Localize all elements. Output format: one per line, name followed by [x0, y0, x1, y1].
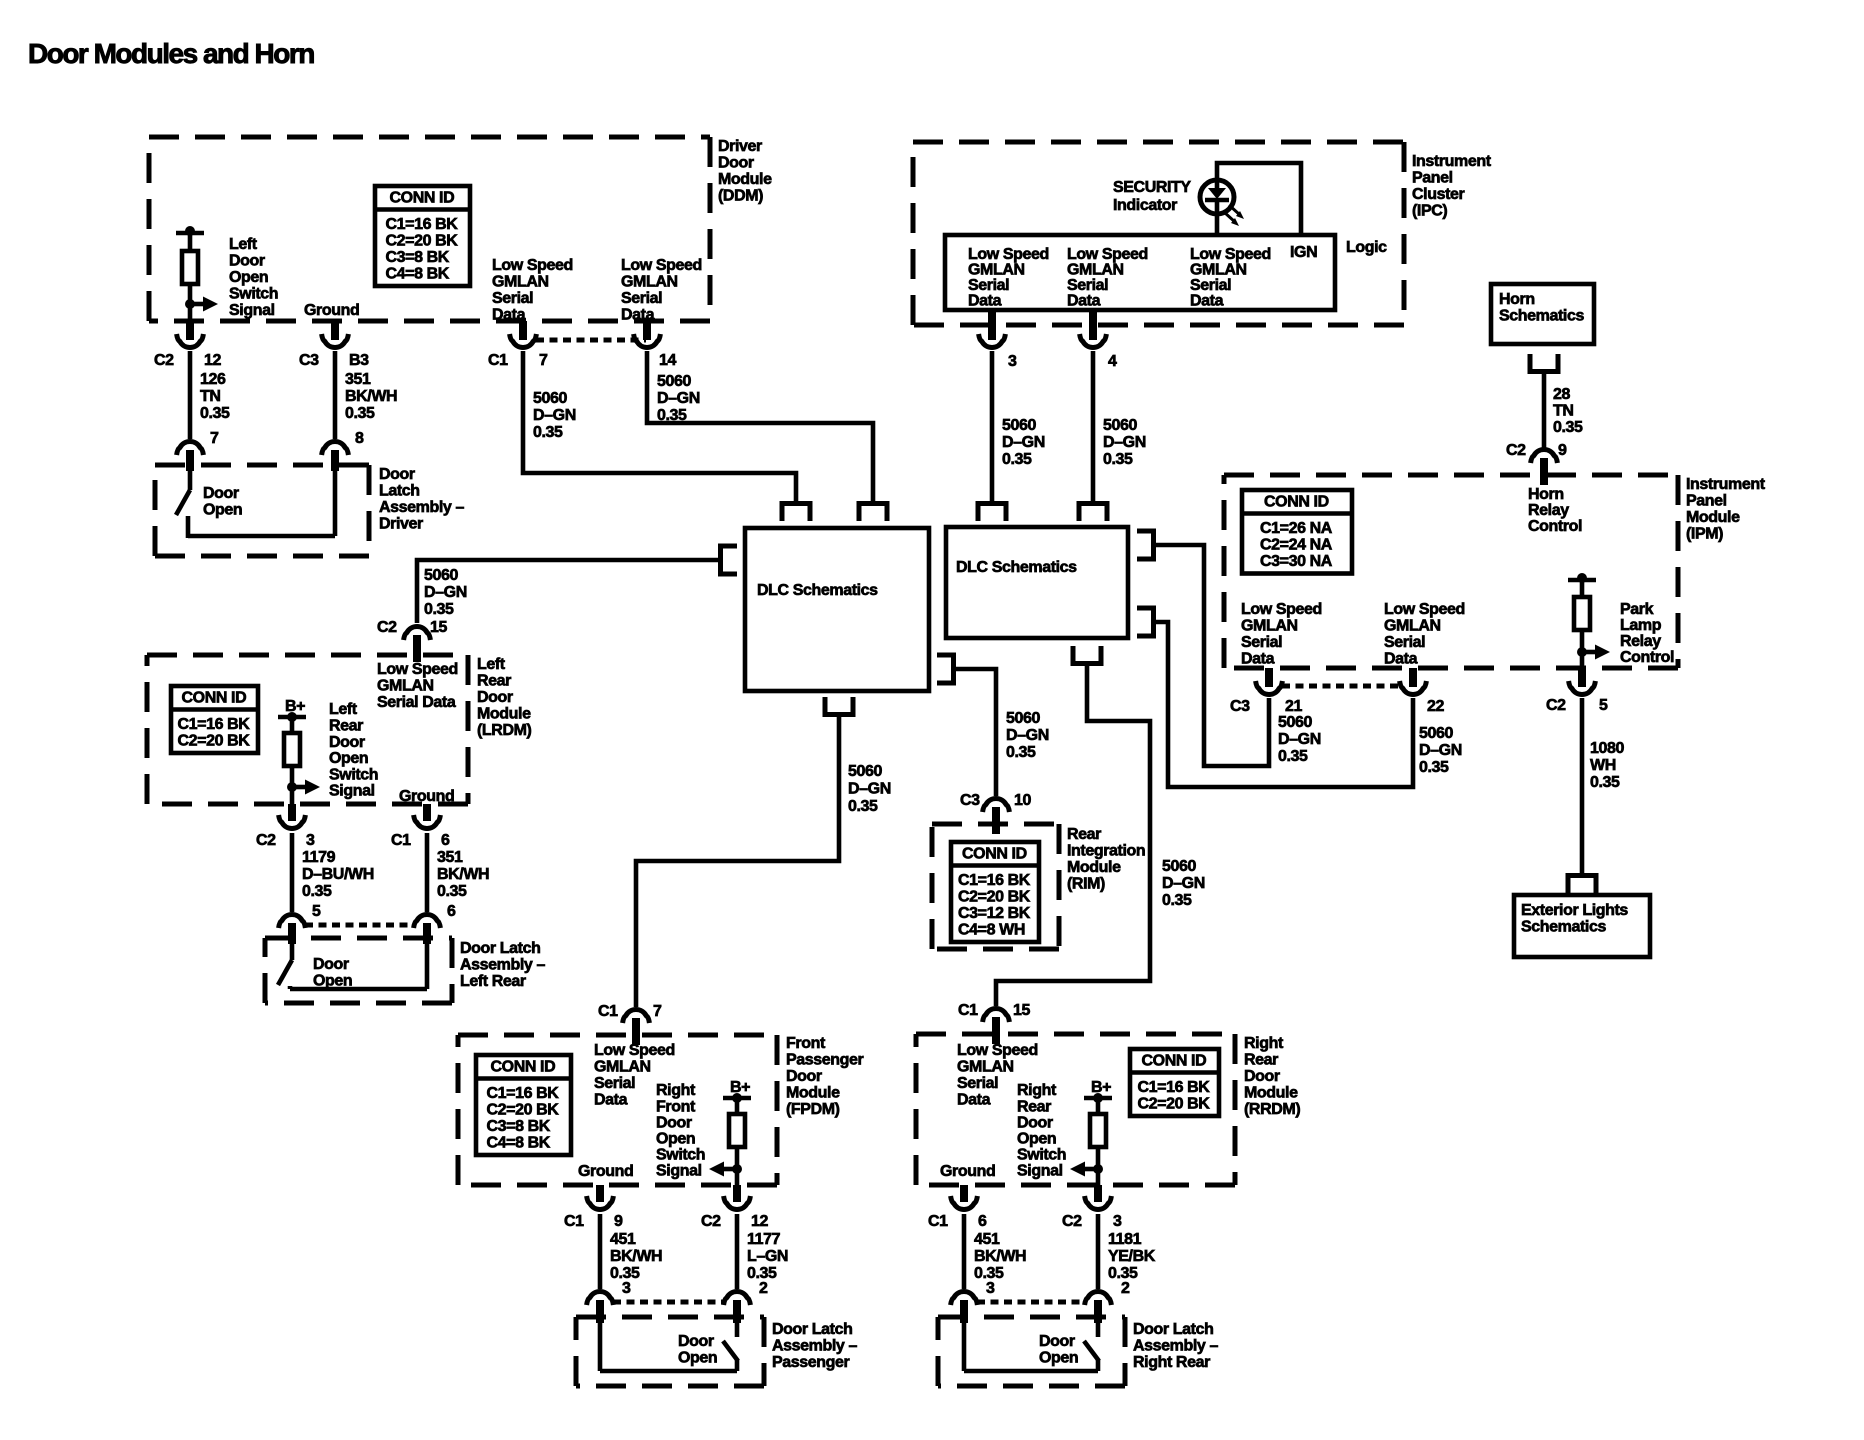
wire 351 BK/WH 0.35 [333, 351, 338, 439]
svg-text:Door: Door [786, 1068, 822, 1085]
label Low Speed GMLAN Serial Data (IPM col2) [1384, 601, 1465, 667]
label 5060 D-GN 0.35 (IPM 21) [1278, 714, 1321, 765]
connector C3 pin 21 (IPM) [1256, 668, 1283, 694]
svg-text:Door: Door [477, 689, 513, 706]
svg-text:C2: C2 [154, 352, 174, 369]
svg-text:0.35: 0.35 [424, 601, 454, 618]
svg-text:Open: Open [229, 269, 268, 286]
labels C1 6 [391, 832, 450, 849]
label Door Open (driver latch) [203, 485, 242, 519]
label Low Speed GMLAN Serial Data (DDM col2) [621, 257, 702, 323]
svg-text:GMLAN: GMLAN [377, 678, 434, 695]
svg-text:451: 451 [974, 1231, 1000, 1248]
svg-text:2: 2 [1121, 1280, 1130, 1297]
connector pin 3 (door latch passenger) [587, 1292, 614, 1323]
svg-text:C2=20 BK: C2=20 BK [386, 233, 459, 250]
svg-text:BK/WH: BK/WH [974, 1248, 1026, 1265]
svg-text:Relay: Relay [1528, 502, 1569, 519]
svg-text:Open: Open [678, 1350, 717, 1367]
svg-text:CONN ID: CONN ID [491, 1059, 556, 1076]
svg-text:C2: C2 [256, 832, 276, 849]
label Low Speed GMLAN Serial Data (DDM col1) [492, 257, 573, 323]
svg-text:GMLAN: GMLAN [621, 274, 678, 291]
svg-text:Rear: Rear [329, 718, 363, 735]
svg-text:Horn: Horn [1499, 291, 1535, 308]
label 5060 D-GN 0.35 (IPC-4) [1103, 417, 1146, 468]
label Rear Integration Module (RIM) [1067, 826, 1145, 893]
label Right Rear Door Open Switch Signal [1017, 1082, 1066, 1180]
svg-text:Data: Data [1241, 650, 1275, 667]
svg-text:1177: 1177 [747, 1231, 781, 1248]
labels C3 10 [960, 792, 1031, 809]
svg-text:C4=8 BK: C4=8 BK [386, 266, 450, 283]
svg-text:5060: 5060 [1006, 710, 1040, 727]
Exterior Lights top tab [1568, 876, 1596, 894]
svg-text:9: 9 [1558, 442, 1567, 459]
svg-text:DLC Schematics: DLC Schematics [757, 582, 878, 599]
label Driver Door Module (DDM) [718, 138, 772, 205]
svg-text:WH: WH [1590, 757, 1616, 774]
svg-text:D–BU/WH: D–BU/WH [302, 866, 374, 883]
svg-text:Park: Park [1620, 601, 1654, 618]
B+ feed and right rear door open switch signal symbol [1070, 1079, 1112, 1185]
svg-text:Rear: Rear [1067, 826, 1101, 843]
svg-text:Door: Door [329, 734, 365, 751]
label Right Front Door Open Switch Signal [656, 1082, 705, 1180]
svg-text:Low Speed: Low Speed [621, 257, 702, 274]
svg-text:Data: Data [1067, 292, 1101, 309]
svg-text:Module: Module [477, 706, 531, 723]
svg-text:Ground: Ground [399, 788, 454, 805]
svg-text:5060: 5060 [657, 373, 691, 390]
connector pin 7 (door latch driver) [177, 442, 204, 471]
connector pin 2 (door latch passenger) [724, 1292, 751, 1323]
svg-text:Open: Open [203, 502, 242, 519]
wire 1179 D-BU/WH 0.35 [290, 833, 295, 912]
label Low Speed GMLAN Serial Data (LRDM) [377, 661, 458, 711]
svg-text:Open: Open [1017, 1131, 1056, 1148]
svg-text:Serial: Serial [957, 1075, 998, 1092]
svg-text:2: 2 [759, 1280, 768, 1297]
svg-text:Data: Data [594, 1091, 628, 1108]
label 126 TN 0.35 pin 7 [200, 371, 230, 447]
svg-text:28: 28 [1553, 386, 1570, 403]
svg-text:Right: Right [656, 1082, 696, 1099]
svg-text:Module: Module [1686, 509, 1740, 526]
svg-text:351: 351 [345, 371, 371, 388]
svg-text:Door Latch: Door Latch [460, 940, 540, 957]
title [28, 38, 314, 69]
svg-text:351: 351 [437, 849, 463, 866]
svg-text:Switch: Switch [656, 1147, 705, 1164]
svg-text:Door: Door [656, 1114, 692, 1131]
svg-text:5060: 5060 [424, 567, 458, 584]
svg-text:9: 9 [614, 1213, 623, 1230]
label Ground (DDM) [304, 302, 359, 319]
svg-text:Passenger: Passenger [772, 1354, 850, 1371]
label Door Latch Assembly Driver [379, 466, 464, 533]
svg-text:(RIM): (RIM) [1067, 876, 1105, 893]
label 351 BK/WH 0.35 pin 8 [345, 371, 397, 447]
label Door Open (right rear latch) [1039, 1333, 1078, 1367]
svg-text:Module: Module [718, 171, 772, 188]
svg-text:Door: Door [379, 466, 415, 483]
wire 5060 D-GN 0.35 DLC2-upper-right to IPM C3-21 [1156, 545, 1269, 766]
svg-text:12: 12 [751, 1213, 768, 1230]
svg-text:0.35: 0.35 [848, 798, 878, 815]
svg-text:Left: Left [229, 236, 258, 253]
svg-text:D–GN: D–GN [1002, 434, 1045, 451]
DLC2 bottom tab [1073, 646, 1101, 664]
svg-text:Door: Door [1017, 1114, 1053, 1131]
svg-text:GMLAN: GMLAN [1241, 618, 1298, 635]
label Low Speed GMLAN Serial Data (IPC col3) [1190, 246, 1271, 309]
Horn Schematics bottom tab [1530, 354, 1558, 372]
svg-text:Integration: Integration [1067, 843, 1145, 860]
svg-text:Latch: Latch [379, 483, 420, 500]
svg-text:0.35: 0.35 [1419, 759, 1449, 776]
svg-text:Schematics: Schematics [1499, 308, 1584, 325]
label Park Lamp Relay Control [1620, 601, 1674, 666]
module LRDM dashed box [147, 655, 468, 804]
svg-text:D–GN: D–GN [657, 390, 700, 407]
svg-text:Door Modules and Horn: Door Modules and Horn [28, 38, 314, 69]
svg-text:Instrument: Instrument [1412, 153, 1492, 170]
svg-text:3: 3 [306, 832, 315, 849]
connector pin 8 (door latch driver) [322, 442, 349, 471]
labels C1 7 [488, 352, 548, 369]
svg-text:Panel: Panel [1412, 170, 1453, 187]
svg-text:C2=20 BK: C2=20 BK [487, 1102, 560, 1119]
svg-text:Driver: Driver [379, 516, 423, 533]
labels C2 3 [1062, 1213, 1122, 1230]
svg-text:D–GN: D–GN [533, 407, 576, 424]
svg-text:C3: C3 [1230, 698, 1250, 715]
svg-text:Left: Left [329, 701, 358, 718]
svg-text:Low Speed: Low Speed [377, 661, 458, 678]
svg-text:C2=20 BK: C2=20 BK [958, 889, 1031, 906]
svg-text:D–GN: D–GN [1006, 727, 1049, 744]
label SECURITY Indicator [1113, 179, 1191, 214]
svg-text:Assembly –: Assembly – [379, 499, 464, 516]
svg-text:Ground: Ground [304, 302, 359, 319]
svg-text:Low Speed: Low Speed [594, 1042, 675, 1059]
svg-text:0.35: 0.35 [1278, 748, 1308, 765]
svg-text:(IPC): (IPC) [1412, 203, 1447, 220]
connector C1 pin 6 (RRDM) [951, 1185, 978, 1209]
svg-text:D–GN: D–GN [1419, 742, 1462, 759]
svg-text:6: 6 [978, 1213, 987, 1230]
svg-text:Rear: Rear [1244, 1052, 1278, 1069]
connector pin 4 (IPC) [1080, 310, 1107, 347]
svg-text:D–GN: D–GN [848, 781, 891, 798]
labels C1 9 [564, 1213, 623, 1230]
svg-text:Right: Right [1017, 1082, 1057, 1099]
CONN ID table [1130, 1049, 1219, 1116]
svg-text:Logic: Logic [1346, 239, 1387, 256]
svg-text:C1: C1 [564, 1213, 584, 1230]
svg-text:3: 3 [1008, 353, 1017, 370]
svg-text:7: 7 [539, 352, 548, 369]
svg-text:Rear: Rear [1017, 1098, 1051, 1115]
svg-text:Control: Control [1528, 518, 1582, 535]
svg-text:Exterior Lights: Exterior Lights [1521, 902, 1628, 919]
svg-text:C2=24 NA: C2=24 NA [1260, 537, 1333, 554]
svg-text:C3=8 BK: C3=8 BK [386, 249, 450, 266]
Exterior Lights Schematics box [1514, 895, 1650, 957]
svg-text:BK/WH: BK/WH [610, 1248, 662, 1265]
svg-text:(LRDM): (LRDM) [477, 722, 532, 739]
door open switch (right rear) [964, 1323, 1099, 1371]
svg-text:C3=30 NA: C3=30 NA [1260, 553, 1333, 570]
wire 1181 YE/BK 0.35 [1096, 1214, 1101, 1289]
svg-text:CONN ID: CONN ID [182, 690, 247, 707]
svg-text:451: 451 [610, 1231, 636, 1248]
label Door Open (left rear latch) [313, 956, 352, 990]
wire 5060 D-GN 0.35 DLC2-bottom to RRDM C1-15 [996, 666, 1150, 1006]
svg-text:5: 5 [312, 903, 321, 920]
svg-text:5060: 5060 [1278, 714, 1312, 731]
left door open switch signal source symbol [176, 226, 218, 321]
wire 5060 D-GN 0.35 from DDM C1-7 to DLC1 [523, 351, 796, 503]
connector pin 6 (door latch left rear) [414, 915, 441, 944]
svg-text:Serial: Serial [594, 1075, 635, 1092]
svg-text:Front: Front [656, 1098, 696, 1115]
svg-text:0.35: 0.35 [657, 407, 687, 424]
Horn Schematics box [1491, 284, 1594, 344]
svg-text:D–GN: D–GN [1278, 731, 1321, 748]
svg-text:14: 14 [659, 352, 676, 369]
svg-text:6: 6 [447, 903, 456, 920]
svg-text:Serial: Serial [621, 290, 662, 307]
LED security indicator [1200, 180, 1234, 214]
label 351 BK/WH 0.35 pin 6 [437, 849, 489, 920]
svg-text:BK/WH: BK/WH [345, 388, 397, 405]
wire 451 BK/WH 0.35 (FPDM) [598, 1214, 603, 1289]
label Door Latch Assembly Left Rear [460, 940, 545, 990]
connector pin 14 (DDM) [634, 321, 661, 347]
label Ground (FPDM) [578, 1163, 633, 1180]
svg-text:Left Rear: Left Rear [460, 973, 526, 990]
svg-text:D–GN: D–GN [1162, 875, 1205, 892]
svg-text:C2: C2 [1062, 1213, 1082, 1230]
svg-text:Signal: Signal [329, 783, 375, 800]
svg-text:Door: Door [313, 956, 349, 973]
label Left Rear Door Module (LRDM) [477, 656, 532, 739]
connector C1 pin 7 (FPDM) [623, 1010, 650, 1045]
label 451 BK/WH 0.35 pin 3 (RRDM) [974, 1231, 1026, 1297]
svg-text:0.35: 0.35 [302, 883, 332, 900]
CONN ID table [476, 1055, 571, 1155]
DLC1 top tab 1 [782, 504, 810, 522]
svg-text:Open: Open [656, 1131, 695, 1148]
svg-text:TN: TN [1553, 403, 1574, 420]
connector bridge dotted line (right rear latch) [977, 1300, 1085, 1305]
svg-text:0.35: 0.35 [200, 405, 230, 422]
labels C2 12 [701, 1213, 768, 1230]
connector C2 pin 5 (IPM) [1569, 668, 1596, 694]
svg-text:L–GN: L–GN [747, 1248, 788, 1265]
svg-text:Low Speed: Low Speed [957, 1042, 1038, 1059]
svg-text:Door: Door [678, 1333, 714, 1350]
CONN ID table [1242, 490, 1352, 574]
svg-text:15: 15 [1013, 1002, 1030, 1019]
svg-text:Signal: Signal [656, 1163, 702, 1180]
connector C1 pin 15 (RRDM) [983, 1009, 1010, 1044]
svg-text:Door Latch: Door Latch [1133, 1321, 1213, 1338]
label Front Passenger Door Module (FPDM) [786, 1035, 864, 1118]
wire 5060 D-GN 0.35 DLC1-left to LRDM C2-15 [417, 560, 718, 623]
connector bridge dotted line (passenger latch) [613, 1300, 724, 1305]
module FPDM dashed box [458, 1035, 777, 1185]
label 5060 D-GN 0.35 (DDM C1-7) [533, 390, 576, 441]
wire 5060 D-GN 0.35 from DDM 14 to DLC1 [647, 351, 873, 503]
svg-text:Assembly –: Assembly – [1133, 1338, 1218, 1355]
door open switch (driver) [176, 469, 335, 538]
svg-text:3: 3 [986, 1280, 995, 1297]
module IPC dashed box [913, 142, 1404, 325]
connector C1 pin 9 (FPDM) [587, 1185, 614, 1209]
label IGN [1290, 244, 1317, 261]
svg-text:Right Rear: Right Rear [1133, 1354, 1210, 1371]
svg-text:Signal: Signal [229, 302, 275, 319]
svg-text:Data: Data [1384, 650, 1418, 667]
svg-text:Door: Door [1244, 1068, 1280, 1085]
labels C2 9 [1506, 442, 1567, 459]
DLC1 left tab [721, 546, 738, 574]
svg-text:C3: C3 [299, 352, 319, 369]
svg-text:Rear: Rear [477, 673, 511, 690]
svg-text:GMLAN: GMLAN [957, 1059, 1014, 1076]
wire 5060 D-GN 0.35 IPC-4 to DLC2 [1091, 351, 1096, 503]
connector bridge dotted line (IPM 21-22) [1282, 684, 1400, 689]
wire LED cathode to logic [1215, 212, 1220, 235]
svg-text:Low Speed: Low Speed [492, 257, 573, 274]
svg-text:4: 4 [1108, 353, 1117, 370]
connector bridge dotted line (DDM C1) [536, 338, 646, 343]
label 28 TN 0.35 [1553, 386, 1583, 436]
connector pin 3 (door latch right rear) [951, 1292, 978, 1323]
connector C1 pin 7 (DDM) [510, 321, 537, 347]
svg-text:126: 126 [200, 371, 226, 388]
connector C2 pin 12 (DDM) [177, 321, 204, 347]
svg-text:B+: B+ [285, 698, 305, 715]
svg-text:0.35: 0.35 [1162, 892, 1192, 909]
label Ground (LRDM) [399, 788, 454, 805]
label Left Door Open Switch Signal [229, 236, 278, 319]
svg-text:Relay: Relay [1620, 633, 1661, 650]
svg-text:5060: 5060 [1103, 417, 1137, 434]
svg-text:GMLAN: GMLAN [594, 1059, 651, 1076]
svg-text:Schematics: Schematics [1521, 919, 1606, 936]
wire 5060 D-GN 0.35 DLC1-right to RIM C3-10 [956, 669, 996, 796]
svg-text:10: 10 [1014, 792, 1031, 809]
label Right Rear Door Module (RRDM) [1244, 1035, 1300, 1118]
label Door Latch Assembly Right Rear [1133, 1321, 1218, 1371]
svg-text:Ground: Ground [940, 1163, 995, 1180]
logic box (IPC) [945, 235, 1335, 310]
label Left Rear Door Open Switch Signal [329, 701, 378, 800]
label Ground (RRDM) [940, 1163, 995, 1180]
svg-text:C3: C3 [960, 792, 980, 809]
svg-text:(FPDM): (FPDM) [786, 1101, 840, 1118]
svg-text:0.35: 0.35 [533, 424, 563, 441]
DLC Schematics box 2 [946, 527, 1128, 638]
label 5060 D-GN 0.35 (DDM 14) [657, 373, 700, 424]
svg-text:0.35: 0.35 [1002, 451, 1032, 468]
svg-text:C1=16 BK: C1=16 BK [386, 216, 459, 233]
wire LED anode loop to logic [1217, 163, 1301, 233]
svg-text:C2: C2 [1546, 697, 1566, 714]
svg-text:C3=8 BK: C3=8 BK [487, 1118, 551, 1135]
label 5060 D-GN 0.35 (IPM 22) [1419, 725, 1462, 776]
svg-text:(DDM): (DDM) [718, 188, 763, 205]
DLC2 right tab lower [1137, 608, 1154, 636]
svg-text:IGN: IGN [1290, 244, 1317, 261]
labels C2 12 [154, 352, 221, 369]
svg-text:5060: 5060 [1002, 417, 1036, 434]
B+ feed and left rear door open switch signal symbol [278, 698, 320, 804]
svg-text:Serial: Serial [492, 290, 533, 307]
svg-text:C1=16 BK: C1=16 BK [487, 1085, 560, 1102]
svg-text:(IPM): (IPM) [1686, 526, 1723, 543]
svg-text:1181: 1181 [1108, 1231, 1142, 1248]
svg-text:C1=16 BK: C1=16 BK [958, 872, 1031, 889]
svg-text:Door: Door [229, 253, 265, 270]
module RIM dashed box [932, 824, 1059, 949]
label 1181 YE/BK 0.35 pin 2 [1108, 1231, 1156, 1297]
label 5060 D-GN 0.35 (RIM C3-10) [1006, 710, 1049, 761]
svg-text:Door: Door [718, 155, 754, 172]
svg-text:C1: C1 [928, 1213, 948, 1230]
labels C2 15 [377, 619, 447, 636]
connector C2 pin 3 (RRDM) [1085, 1185, 1112, 1209]
DLC2 top tab 2 [1079, 504, 1107, 522]
door open switch (left rear) [278, 944, 427, 989]
connector pin 3 (IPC) [979, 310, 1006, 347]
svg-text:Data: Data [968, 292, 1002, 309]
svg-text:C2: C2 [1506, 442, 1526, 459]
DLC2 top tab 1 [978, 504, 1006, 522]
svg-text:TN: TN [200, 388, 221, 405]
wire 5060 D-GN 0.35 DLC2-lower-right to IPM 22 [1156, 622, 1413, 787]
connector pin 5 (door latch left rear) [279, 915, 306, 944]
svg-text:C1: C1 [488, 352, 508, 369]
svg-text:5060: 5060 [1419, 725, 1453, 742]
svg-text:CONN ID: CONN ID [1264, 494, 1329, 511]
svg-text:21: 21 [1285, 698, 1302, 715]
svg-text:B+: B+ [730, 1079, 750, 1096]
labels C2 5 [1546, 697, 1608, 714]
svg-text:Right: Right [1244, 1035, 1284, 1052]
connector C2 pin 3 (LRDM) [279, 804, 306, 828]
label Low Speed GMLAN Serial Data (RRDM) [957, 1042, 1038, 1108]
svg-text:22: 22 [1427, 698, 1444, 715]
svg-text:5060: 5060 [533, 390, 567, 407]
wire 351 BK/WH 0.35 (LRDM) [425, 833, 430, 912]
svg-text:YE/BK: YE/BK [1108, 1248, 1156, 1265]
svg-text:Passenger: Passenger [786, 1052, 864, 1069]
connector C2 pin 15 (LRDM) [404, 627, 431, 662]
svg-text:Serial Data: Serial Data [377, 694, 456, 711]
module DDM dashed box [149, 137, 710, 321]
svg-text:C1=26 NA: C1=26 NA [1260, 520, 1333, 537]
svg-text:Open: Open [329, 750, 368, 767]
CONN ID table [375, 186, 470, 286]
label 14 [659, 352, 676, 369]
connector C3 pin 10 (RIM) [983, 799, 1010, 834]
label 3 [1008, 353, 1017, 370]
